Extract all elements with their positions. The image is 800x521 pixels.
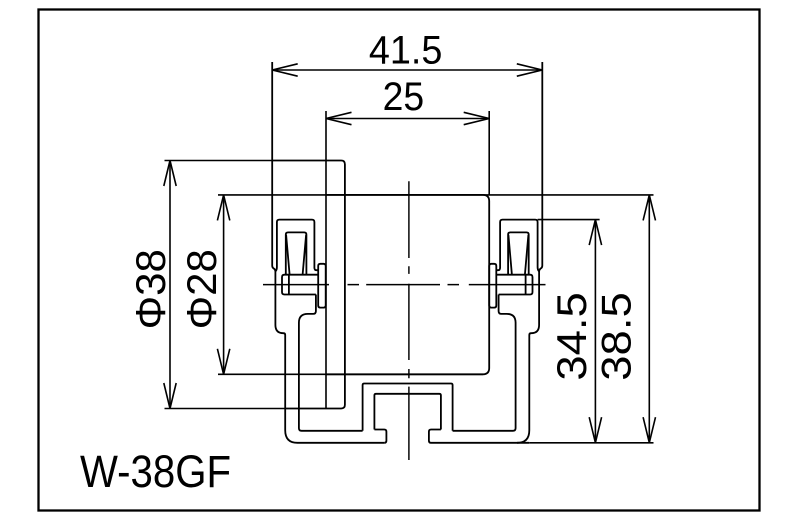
- dim 34.5 line: [594, 220, 596, 443]
- slot cavity: [374, 394, 441, 430]
- slot lip left: [374, 430, 386, 443]
- dim phi28 ext bottom: [218, 373, 483, 375]
- rail wall curl right + inner wall + base top right: [453, 295, 516, 431]
- axle flange right: [489, 264, 496, 308]
- dim 41.5 line: [272, 69, 542, 71]
- slot lip right: [429, 430, 441, 443]
- dim 25 line: [326, 118, 489, 120]
- dim phi38 ext lines: [165, 161, 286, 409]
- right outer face profile + rail outer corner: [517, 62, 542, 443]
- dim 34.5 ext top: [538, 219, 600, 221]
- svg-text:Φ38: Φ38: [127, 249, 174, 329]
- svg-text:Φ28: Φ28: [178, 249, 225, 329]
- dim 41.5 arrows: [272, 64, 542, 76]
- dim 38.5 line: [648, 195, 650, 443]
- bearing taper lines left: [286, 235, 306, 295]
- dim phi28 line: [223, 195, 225, 374]
- svg-text:34.5: 34.5: [548, 292, 595, 381]
- dim phi38 line: [169, 161, 171, 409]
- bearing housing left: [276, 220, 319, 272]
- dim 25 ext lines: [326, 111, 489, 409]
- svg-text:41.5: 41.5: [369, 28, 443, 72]
- bearing housing right: [496, 220, 539, 272]
- slot box: [363, 384, 453, 431]
- vertical centerline: [408, 181, 410, 460]
- wheel left outer face profile + rail outer corner: [272, 62, 384, 443]
- dim phi28 ext top long line: [218, 194, 654, 196]
- bearing taper lines right: [508, 235, 528, 295]
- dim phi38 arrows: [164, 161, 176, 409]
- axle left with round cap: [282, 275, 318, 295]
- dim 34.5 arrows: [589, 220, 601, 443]
- dim phi28 arrows: [217, 195, 229, 374]
- rail bottom ext right: [529, 442, 653, 444]
- wheel left envelope (top edge, inner face, bottom edge): [272, 161, 345, 409]
- axle right with round cap: [496, 275, 532, 295]
- rail bottom right: [431, 442, 529, 444]
- rail wall curl left + inner wall + base top left: [299, 295, 363, 431]
- svg-text:25: 25: [383, 75, 425, 119]
- axle flange left: [318, 264, 326, 308]
- svg-text:W-38GF: W-38GF: [80, 446, 231, 497]
- dim 25 arrows: [326, 112, 489, 124]
- bearing pocket left: [286, 232, 307, 274]
- dim 38.5 arrows: [643, 195, 655, 443]
- horizontal centerline: [263, 284, 546, 286]
- svg-text:38.5: 38.5: [593, 292, 640, 381]
- bearing pocket right: [508, 232, 529, 274]
- hub cutout rounded rect: [326, 195, 489, 374]
